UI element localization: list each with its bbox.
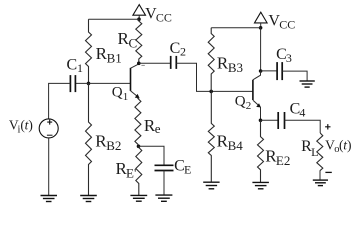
svg-text:Q: Q [235, 93, 246, 109]
plus sign output [325, 124, 330, 129]
label VCC2 [268, 13, 295, 32]
resistor RE' [136, 146, 142, 195]
wire VCC2 down to collector2 [260, 28, 262, 71]
wire emitter2 to C4 [261, 119, 279, 121]
ground Vi [41, 196, 58, 202]
resistor RB2 [86, 83, 92, 195]
node collector1 junction [137, 62, 145, 66]
svg-text:3: 3 [286, 51, 292, 65]
svg-text:B2: B2 [106, 138, 121, 153]
capacitor C1 [70, 75, 75, 92]
label C3 [276, 46, 292, 65]
capacitor C3 [277, 62, 282, 80]
svg-text:E2: E2 [276, 153, 290, 168]
capacitor C4 [278, 112, 284, 129]
label Vo(t) [325, 137, 351, 155]
svg-text:C: C [170, 40, 181, 57]
svg-text:4: 4 [299, 105, 305, 119]
svg-text:1: 1 [77, 61, 83, 75]
ground RB2 [80, 196, 97, 202]
label RB4 [217, 131, 244, 153]
svg-text:B3: B3 [228, 60, 243, 75]
wire to CE [139, 146, 165, 165]
label RC [118, 29, 138, 51]
node collector2 junction [259, 69, 263, 73]
resistor RE2 [258, 120, 264, 182]
label Q2 [235, 93, 252, 111]
node VCC1 junction [137, 17, 141, 21]
svg-text:E: E [184, 163, 191, 177]
label C4 [290, 100, 306, 119]
label Q1 [112, 84, 129, 102]
ground RE' [130, 195, 147, 201]
label Re [144, 116, 161, 136]
ground RB4 [203, 182, 219, 189]
svg-text:): ) [347, 137, 352, 152]
wire VCC2 to RB3 [211, 27, 260, 29]
svg-text:CC: CC [156, 11, 172, 25]
node emitter2 junction [259, 119, 263, 123]
label RB3 [217, 53, 243, 75]
wire CE to ground [163, 171, 165, 196]
capacitor C2 [171, 56, 177, 69]
svg-text:Q: Q [112, 84, 123, 100]
capacitor CE [155, 165, 174, 170]
label VCC1 [145, 6, 172, 25]
node base2 junction [209, 90, 213, 94]
label C2 [170, 40, 186, 58]
resistor RB1 [86, 19, 92, 83]
label RB1 [96, 44, 122, 66]
wire C4 to RL [285, 120, 321, 133]
svg-text:2: 2 [246, 100, 252, 112]
label CE [174, 157, 191, 176]
svg-text:L: L [311, 145, 318, 159]
svg-text:2: 2 [180, 44, 186, 58]
node base1 junction [87, 82, 91, 86]
minus sign output [325, 171, 331, 173]
label RE2 [265, 147, 290, 168]
wire C2 to Q2 base [176, 63, 252, 91]
label RB2 [95, 131, 121, 153]
svg-text:B4: B4 [228, 138, 244, 153]
svg-text:B1: B1 [107, 50, 122, 65]
label RL [301, 138, 318, 159]
svg-text:): ) [28, 117, 33, 132]
svg-text:E': E' [126, 165, 136, 180]
ground RE2 [252, 182, 269, 188]
resistor RC [136, 19, 142, 63]
transistor Q1 [131, 64, 140, 98]
transistor Q2 [253, 71, 261, 120]
wire collector2 to C3 [261, 70, 278, 72]
wire Vi to ground [48, 138, 50, 196]
power VCC1 symbol [133, 5, 146, 20]
wire RL to ground [319, 171, 321, 180]
label RE' [116, 159, 137, 180]
source Vi [39, 119, 58, 138]
ground C3 [300, 81, 315, 87]
svg-text:e: e [155, 121, 161, 136]
resistor Re [135, 98, 141, 147]
label Vi(t) [9, 117, 33, 135]
node emitter1 junction [137, 145, 141, 149]
ground CE [155, 195, 172, 201]
wire Q1 base [75, 82, 130, 84]
svg-text:CC: CC [279, 18, 295, 32]
wire C1 to source [49, 83, 71, 119]
resistor RL [317, 133, 323, 171]
wire C3 to ground [282, 71, 307, 81]
resistor RB3 [208, 28, 214, 92]
wire collector1 to C2 [139, 62, 171, 64]
wire VCC1 rail to RB1 [89, 18, 140, 20]
svg-text:C: C [129, 36, 138, 51]
power VCC2 symbol [255, 12, 268, 28]
node VCC2 junction [259, 26, 263, 30]
resistor RB4 [208, 91, 214, 182]
svg-text:1: 1 [123, 91, 129, 103]
svg-text:C: C [67, 57, 78, 74]
ground RL [313, 180, 328, 186]
label C1 [67, 57, 84, 76]
